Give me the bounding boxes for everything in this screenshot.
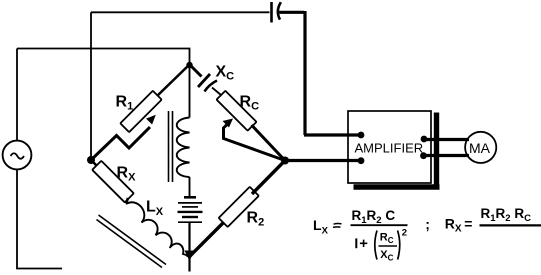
wire capacitor to amplifier input 1 bbox=[279, 11, 361, 135]
svg-text:XC: XC bbox=[380, 249, 393, 263]
capacitor C1 (DC blocking) bbox=[272, 2, 281, 23]
amplifier U1 box with shadow bbox=[348, 111, 440, 187]
amplifier output terminal dots bbox=[421, 136, 428, 143]
wire top horizontal to blocking capacitor bbox=[91, 11, 270, 13]
node R (right bridge node) bbox=[281, 157, 289, 165]
battery B1 bbox=[178, 197, 203, 252]
wire node R to amplifier input 2 bbox=[285, 159, 361, 162]
resistor RX bbox=[91, 160, 136, 204]
capacitor XC bbox=[190, 64, 235, 92]
svg-text:MA: MA bbox=[469, 140, 491, 156]
svg-text:RX: RX bbox=[117, 165, 137, 184]
svg-text:R1: R1 bbox=[116, 94, 134, 113]
svg-text:;: ; bbox=[425, 216, 430, 232]
R1 wiper arrow from node L bbox=[91, 115, 156, 160]
svg-text:AMPLIFIER: AMPLIFIER bbox=[355, 140, 424, 155]
wire left vertical above AC source bbox=[16, 49, 18, 141]
svg-text:=: = bbox=[464, 216, 472, 232]
meter MA bbox=[465, 132, 496, 163]
svg-text:R1R2 C: R1R2 C bbox=[352, 208, 396, 226]
wire crossover vertical x=91 (top wire to node L) bbox=[90, 12, 92, 160]
resistor RC bbox=[212, 88, 285, 161]
svg-text:RC: RC bbox=[240, 94, 260, 113]
formula LX bbox=[313, 208, 408, 262]
resistor R1 bbox=[116, 65, 190, 133]
inductor LX (coil) bbox=[126, 199, 188, 257]
AC source G1 bbox=[3, 141, 32, 170]
choke iron core (two vertical lines) bbox=[169, 111, 173, 182]
node T (top bridge node) bbox=[186, 62, 192, 68]
svg-text:RC: RC bbox=[380, 232, 394, 246]
svg-text:LX: LX bbox=[146, 199, 164, 218]
svg-text:RX: RX bbox=[445, 216, 462, 235]
node B (bottom bridge node, arrow junction) bbox=[185, 251, 195, 272]
wires amplifier outputs to meter bbox=[424, 140, 470, 156]
svg-text:R1R2 RC: R1R2 RC bbox=[481, 206, 532, 224]
RC wiper arrow from node R bbox=[223, 119, 286, 161]
resistor R2 bbox=[190, 161, 286, 257]
svg-text:XC: XC bbox=[216, 64, 235, 83]
formula RX bbox=[425, 206, 541, 235]
wire generator top: horizontal at y=48.5 and drop to node T bbox=[17, 49, 190, 65]
choke coil (middle branch) bbox=[177, 65, 190, 196]
amplifier input terminal dots bbox=[358, 132, 365, 139]
svg-text:2: 2 bbox=[402, 227, 407, 238]
LX iron core (two parallel lines) bbox=[97, 215, 167, 268]
wire left vertical below AC source and bottom stub bbox=[17, 169, 62, 268]
svg-text:R2: R2 bbox=[247, 210, 265, 229]
svg-text:LX: LX bbox=[313, 217, 329, 236]
node L (left bridge node) bbox=[87, 156, 95, 164]
